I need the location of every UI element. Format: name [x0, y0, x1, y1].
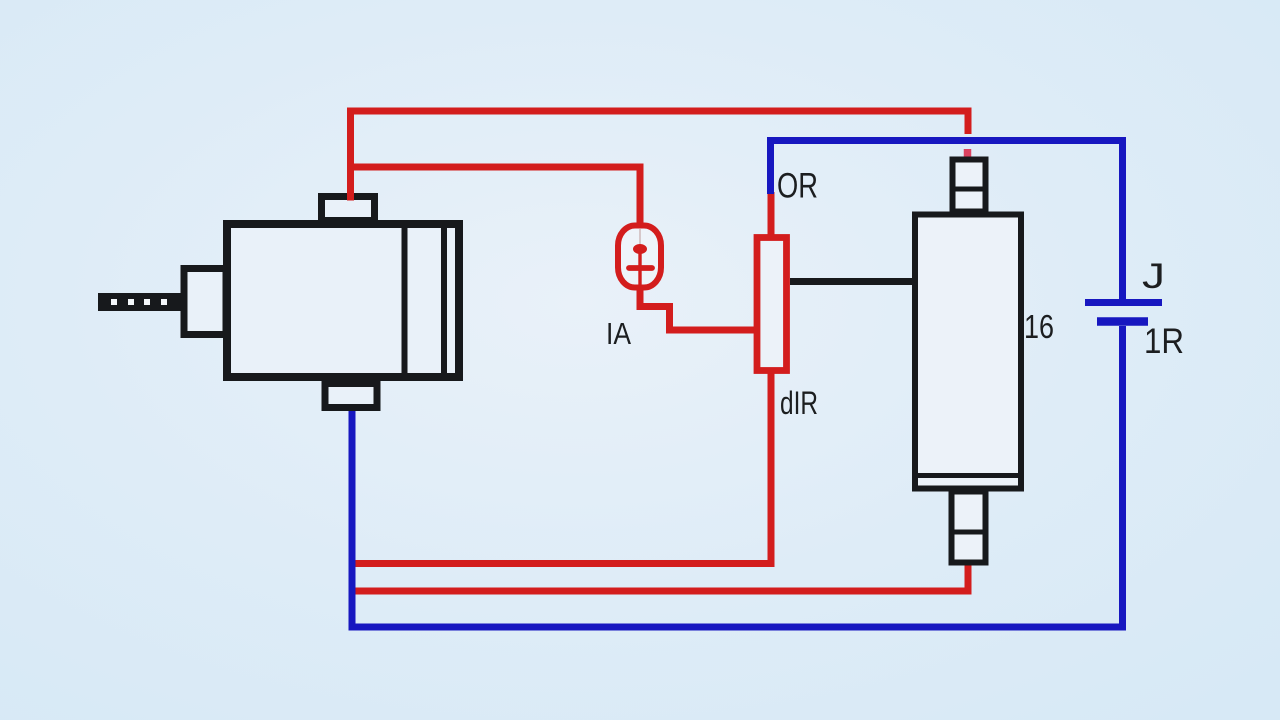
- wire: red stub over motor top terminal: [347, 193, 354, 201]
- motor: shaft hole 2: [128, 299, 134, 305]
- component 16: bottom terminal: [952, 492, 986, 563]
- motor: end-cap line 1: [402, 224, 408, 377]
- component 16: bottom divider: [915, 473, 1021, 478]
- wire: blue from battery - down, along bottom rail, up to motor bottom terminal: [352, 326, 1123, 627]
- battery J: positive plate (long): [1085, 299, 1162, 306]
- motor: end-cap line 2: [441, 224, 447, 377]
- lamp IA: filament stem: [638, 251, 641, 285]
- motor: shaft hole 4: [161, 299, 167, 305]
- wire: red from motor top terminal up to top rail junction, top rail right to component, down into component top cap: [351, 111, 969, 196]
- wire: red from component bottom cap down and left along lowest red rail: [353, 560, 968, 591]
- component 16: bottom terminal divider: [951, 530, 986, 535]
- svg-text:IA: IA: [606, 316, 631, 351]
- wire: black from rheostat right to component left: [790, 278, 913, 285]
- wire: red from rheostat top up to OR node: [768, 192, 775, 238]
- motor: shaft hole 3: [144, 299, 150, 305]
- motor: shaft hole 1: [111, 299, 117, 305]
- rheostat (red box): [757, 238, 787, 371]
- svg-text:16: 16: [1024, 308, 1054, 345]
- svg-text:J: J: [1142, 257, 1165, 296]
- lamp IA: capsule outline: [618, 226, 661, 288]
- motor: bottom terminal block: [325, 384, 377, 408]
- wire: red stub into component top cap: [964, 149, 972, 159]
- wire: red from rheostat bottom down and left along lower rail to blue return: [353, 370, 771, 564]
- wire: blue from OR node along top right rail down to battery +: [771, 141, 1123, 301]
- svg-text:1R: 1R: [1144, 322, 1184, 361]
- component 16: top terminal: [953, 160, 986, 212]
- battery J: negative plate (short thick): [1097, 317, 1148, 326]
- lamp IA: plate: [629, 265, 652, 271]
- wire: lamp bottom jog to rheostat left side: [640, 286, 755, 330]
- lamp IA: inner stem line: [639, 229, 641, 285]
- motor: main body: [227, 224, 459, 377]
- svg-text:dIR: dIR: [780, 385, 818, 421]
- motor: top terminal block: [322, 197, 375, 221]
- motor: shaft: [98, 293, 181, 311]
- wire: red branch rail to lamp, down to lamp top: [354, 167, 640, 228]
- component 16: main body: [915, 215, 1021, 489]
- svg-text:OR: OR: [777, 167, 818, 206]
- motor: shaft mount: [184, 269, 226, 335]
- lamp IA: filament bead: [633, 244, 647, 254]
- component 16: top terminal divider: [952, 187, 986, 192]
